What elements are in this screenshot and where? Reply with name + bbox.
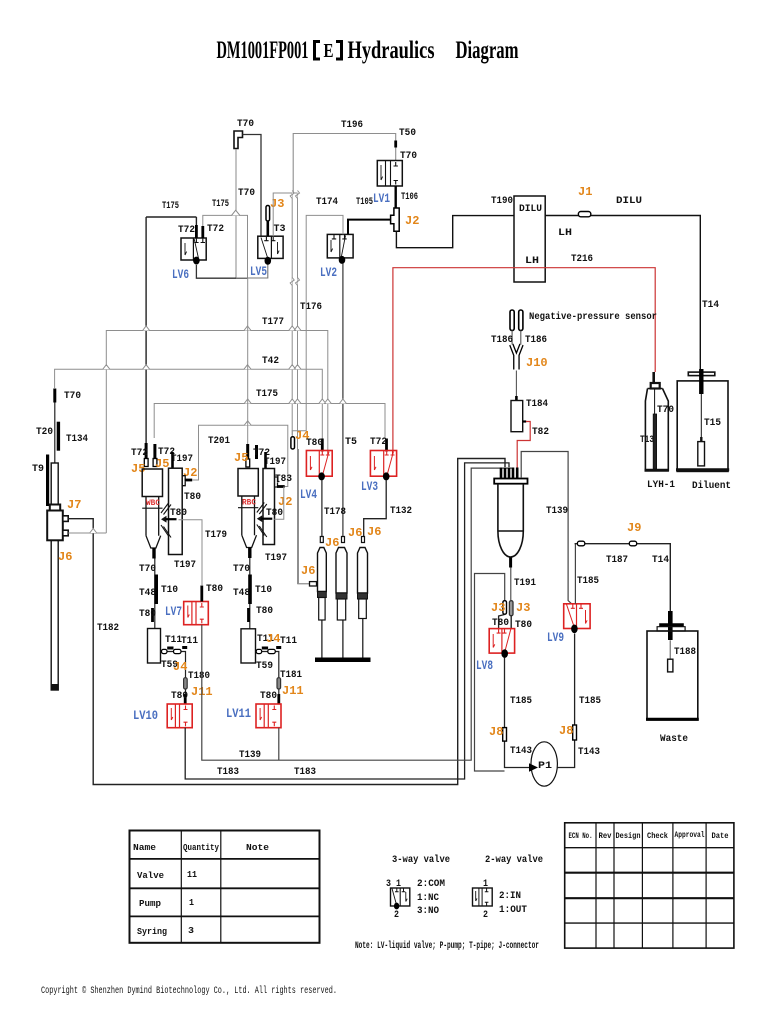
wire LV8 to P1 — [505, 658, 530, 768]
T106 wire LV1 to J2 — [395, 186, 397, 208]
svg-text:T20: T20 — [36, 427, 53, 438]
wire WBC stem down — [154, 559, 156, 629]
svg-text:DILU: DILU — [519, 204, 542, 215]
RBC mixer wire joins T201 riser — [274, 487, 284, 520]
svg-text:T175: T175 — [256, 389, 278, 400]
svg-text:1:OUT: 1:OUT — [499, 905, 527, 916]
svg-text:LV6: LV6 — [172, 267, 189, 282]
pump P1 — [531, 742, 557, 786]
svg-text:T197: T197 — [174, 560, 196, 571]
svg-text:J6: J6 — [58, 550, 72, 564]
T10 tick WBC — [154, 575, 158, 605]
RBC left port tick and capsule — [246, 444, 249, 459]
svg-text:T9: T9 — [32, 464, 44, 475]
T178 wire LV4 to syringe1 — [321, 480, 323, 537]
Y connector J10 — [511, 345, 521, 370]
svg-text:T70: T70 — [657, 405, 674, 416]
svg-text:T181: T181 — [280, 670, 302, 681]
WBC left port tick and J5 capsule — [145, 443, 148, 458]
svg-text:T175: T175 — [212, 199, 229, 210]
svg-text:T70: T70 — [64, 391, 81, 402]
svg-text:LV4: LV4 — [300, 487, 317, 502]
svg-text:T80: T80 — [260, 691, 277, 702]
svg-text:T72: T72 — [178, 225, 195, 236]
syringe 1 — [318, 537, 327, 658]
svg-text:P1: P1 — [538, 761, 552, 772]
svg-text:Hydraulics: Hydraulics — [348, 37, 435, 64]
svg-text:LV7: LV7 — [165, 604, 182, 619]
svg-text:T185: T185 — [579, 696, 601, 707]
RBC feed wire from LV5 bus — [247, 278, 249, 444]
hops on T177 — [143, 326, 301, 331]
RBC side box port tick — [264, 452, 267, 468]
T80 tick above LV11 — [277, 694, 280, 704]
svg-text:T80: T80 — [306, 438, 323, 449]
svg-text:RBC: RBC — [242, 499, 256, 508]
svg-text:T201: T201 — [208, 436, 230, 447]
waste body — [647, 631, 698, 720]
svg-text:Diluent: Diluent — [692, 480, 731, 492]
svg-text:T105: T105 — [356, 197, 373, 208]
svg-text:T50: T50 — [399, 128, 416, 139]
svg-text:T191: T191 — [514, 578, 536, 589]
svg-text:Quantity: Quantity — [183, 843, 219, 853]
valve LV8 (3-way red) — [489, 629, 514, 654]
svg-text:T183: T183 — [294, 767, 316, 778]
svg-text:J4: J4 — [266, 632, 280, 646]
wire capsule to LV8 — [510, 616, 512, 629]
svg-text:LV10: LV10 — [133, 708, 158, 723]
svg-text:T80: T80 — [184, 492, 201, 503]
T82 red wire — [523, 420, 527, 422]
svg-text:T174: T174 — [316, 197, 338, 208]
wire LV7 bottom to T139 bus — [202, 468, 513, 760]
valve LV10 (2-way red) — [167, 704, 192, 728]
svg-text:J2: J2 — [278, 495, 292, 509]
svg-text:T48: T48 — [139, 588, 156, 599]
syringe 3 — [358, 537, 368, 658]
svg-text:T13: T13 — [640, 435, 654, 446]
wire Y to T184 — [515, 371, 517, 397]
svg-text:J6: J6 — [325, 536, 339, 550]
svg-text:LV1: LV1 — [373, 191, 390, 206]
svg-text:T197: T197 — [265, 553, 287, 564]
valve LV11 (2-way red) — [256, 704, 281, 728]
svg-text:T10: T10 — [255, 585, 272, 596]
svg-text:LV5: LV5 — [250, 264, 267, 279]
wire LV11 joins T139 bus — [278, 728, 280, 761]
svg-text:J4: J4 — [173, 660, 187, 674]
svg-text:LV11: LV11 — [226, 706, 251, 721]
wire LV6 common to bus — [196, 265, 247, 278]
svg-text:T80: T80 — [139, 609, 156, 620]
elbow connector (T70 top) — [234, 119, 254, 149]
svg-text:LV8: LV8 — [476, 658, 493, 673]
svg-text:J3: J3 — [491, 601, 505, 615]
valve LV2 — [327, 234, 353, 264]
WBC right port tick and capsule — [153, 444, 156, 459]
J3 capsule left — [503, 601, 507, 615]
T134 tick — [57, 422, 60, 451]
RBC stem tick — [248, 548, 251, 559]
valve LV1 — [377, 161, 402, 187]
wire elbow to LV5 port1 — [243, 135, 262, 237]
svg-text:T182: T182 — [97, 623, 119, 634]
svg-text:T188: T188 — [674, 647, 696, 658]
svg-text:T175: T175 — [162, 201, 179, 212]
T80 tick above LV4 — [321, 439, 324, 452]
svg-text:Approval: Approval — [675, 831, 705, 840]
needle lower tab wire to T177 — [68, 532, 106, 534]
T105 wire LV2 to J2 — [348, 220, 391, 235]
svg-text:LH: LH — [525, 256, 539, 267]
svg-text:T134: T134 — [66, 434, 88, 445]
J1 connector — [578, 212, 590, 217]
wire T175 black from LV6 — [146, 217, 196, 443]
svg-text:J9: J9 — [627, 521, 641, 535]
J11 capsule WBC — [184, 678, 188, 689]
wire T175 grey to LV6 port2 — [203, 215, 248, 278]
svg-text:Negative-pressure sensor: Negative-pressure sensor — [529, 311, 657, 323]
svg-text:T106: T106 — [401, 192, 418, 203]
chamber body — [498, 484, 523, 557]
svg-text:T197: T197 — [264, 457, 286, 468]
svg-text:LV2: LV2 — [320, 265, 337, 280]
J8 capsule right — [573, 725, 577, 740]
needle upper tube — [54, 403, 56, 464]
svg-text:T177: T177 — [262, 317, 284, 328]
T3 wire into LV5 — [266, 221, 269, 236]
syringe base bar — [315, 658, 371, 663]
svg-text:2:IN: 2:IN — [499, 891, 521, 902]
T10 tick RBC — [248, 575, 252, 605]
wire T175 horizontal — [154, 404, 385, 439]
wire LV5 common to bus — [236, 263, 268, 278]
syringe 2 — [336, 537, 347, 658]
hops and tees on T175 — [244, 399, 346, 404]
T196 wire — [293, 134, 396, 194]
svg-text:Note: LV-liquid valve; P-pump;: Note: LV-liquid valve; P-pump; T-pipe; J… — [355, 940, 539, 952]
svg-text:2: 2 — [483, 910, 488, 921]
wire LV5 common up to elbow — [235, 149, 237, 278]
WBC chamber body — [142, 469, 162, 548]
svg-text:T183: T183 — [217, 767, 239, 778]
svg-text:T70: T70 — [238, 188, 255, 199]
svg-text:3: 3 — [188, 926, 194, 936]
svg-text:J3: J3 — [516, 601, 530, 615]
svg-text:T42: T42 — [262, 356, 279, 367]
svg-text:J11: J11 — [282, 684, 304, 698]
svg-text:T5: T5 — [345, 437, 357, 448]
svg-text:T70: T70 — [139, 564, 156, 575]
svg-text:T143: T143 — [510, 746, 532, 757]
svg-text:3-way valve: 3-way valve — [392, 854, 450, 866]
WBC stem tick — [152, 548, 155, 559]
svg-text:WBC: WBC — [146, 499, 160, 508]
svg-text:T197: T197 — [171, 454, 193, 465]
svg-text:J3: J3 — [270, 197, 284, 211]
valve LV3 (3-way red) — [370, 451, 396, 477]
svg-text:J8: J8 — [559, 724, 573, 738]
valve LV5 — [258, 236, 283, 265]
svg-text:T80: T80 — [170, 508, 187, 519]
svg-text:Waste: Waste — [660, 734, 688, 745]
svg-text:T132: T132 — [390, 506, 412, 517]
J4 capsule near T201 — [291, 437, 295, 449]
svg-text:T14: T14 — [652, 555, 669, 566]
T187 / J9 line — [575, 544, 671, 611]
svg-text:Pump: Pump — [139, 899, 161, 909]
WBC cup box — [148, 629, 161, 664]
svg-text:J2: J2 — [405, 214, 419, 228]
svg-text:LV3: LV3 — [361, 479, 378, 494]
svg-text:J8: J8 — [489, 725, 503, 739]
svg-text:2: 2 — [394, 910, 399, 921]
svg-text:2:COM: 2:COM — [417, 879, 445, 890]
J3 connector capsule — [266, 206, 270, 222]
svg-text:11: 11 — [187, 870, 198, 880]
T72 port ticks LV6 — [196, 225, 202, 238]
svg-text:ECN No.: ECN No. — [569, 832, 593, 841]
T201 connecting wire box — [192, 425, 288, 486]
svg-text:1:NC: 1:NC — [417, 893, 439, 904]
svg-text:T48: T48 — [233, 588, 250, 599]
T9 tube — [46, 455, 49, 507]
wire J2 bottom to T190 — [396, 216, 514, 248]
svg-text:LYH-1: LYH-1 — [647, 480, 675, 491]
svg-text:T70: T70 — [233, 564, 250, 575]
svg-text:T186: T186 — [491, 335, 513, 346]
svg-text:T80: T80 — [266, 508, 283, 519]
J8 capsule left — [503, 728, 507, 742]
J11 capsule RBC — [277, 678, 281, 689]
svg-text:T179: T179 — [205, 530, 227, 541]
svg-text:J10: J10 — [526, 356, 548, 370]
T139 wire chamber to LV9 — [521, 452, 571, 604]
LV8 left loop wire — [499, 615, 505, 630]
break squiggles on pair — [290, 191, 299, 199]
svg-text:Syring: Syring — [137, 927, 167, 937]
svg-text:J6: J6 — [348, 526, 362, 540]
wire LV9 to P1 — [557, 634, 574, 768]
svg-text:J1: J1 — [578, 185, 592, 199]
WBC J2 side port — [182, 476, 187, 486]
svg-text:T180: T180 — [188, 671, 210, 682]
waste inner tube T188 — [669, 640, 671, 659]
svg-text:E: E — [324, 40, 334, 62]
svg-text:T3: T3 — [274, 224, 286, 235]
sensor port capsules — [510, 310, 514, 331]
svg-text:T143: T143 — [578, 747, 600, 758]
svg-text:T59: T59 — [256, 661, 273, 672]
RBC J2 side port — [275, 477, 280, 487]
svg-text:T216: T216 — [571, 254, 593, 265]
svg-text:T185: T185 — [577, 576, 599, 587]
valve LV4 (3-way red) — [306, 451, 332, 477]
svg-text:Diagram: Diagram — [456, 37, 519, 64]
svg-text:Name: Name — [133, 843, 156, 853]
svg-text:T184: T184 — [526, 399, 548, 410]
RBC right port tick — [255, 445, 258, 459]
T5 wire LV2 common down — [342, 264, 344, 537]
title — [217, 37, 519, 64]
DILU heater box — [514, 196, 545, 282]
svg-text:T72: T72 — [131, 448, 148, 459]
svg-text:J5: J5 — [234, 451, 248, 465]
T80 tick above LV7 — [200, 586, 203, 602]
svg-text:T80: T80 — [206, 584, 223, 595]
svg-text:T15: T15 — [704, 418, 721, 429]
svg-text:Copyright © Shenzhen Dymind Bi: Copyright © Shenzhen Dymind Biotechnolog… — [41, 985, 337, 997]
svg-text:T187: T187 — [606, 555, 628, 566]
svg-text:2-way valve: 2-way valve — [485, 854, 543, 866]
svg-text:T70: T70 — [237, 119, 254, 130]
svg-text:Date: Date — [712, 832, 729, 841]
chamber lid pins — [501, 468, 517, 479]
T70 tick needle line — [53, 389, 56, 403]
svg-text:T72: T72 — [207, 224, 224, 235]
svg-text:J6: J6 — [301, 564, 315, 578]
svg-text:T178: T178 — [324, 507, 346, 518]
svg-text:T11: T11 — [165, 635, 182, 646]
svg-text:T139: T139 — [546, 506, 568, 517]
svg-text:LH: LH — [558, 228, 572, 239]
chamber outlet stem — [509, 558, 512, 568]
svg-text:T139: T139 — [239, 750, 261, 761]
needle body — [47, 463, 68, 690]
svg-text:T80: T80 — [171, 691, 188, 702]
svg-text:J6: J6 — [367, 525, 381, 539]
svg-text:T11: T11 — [181, 636, 198, 647]
svg-text:Valve: Valve — [137, 871, 164, 881]
chamber lid — [494, 479, 527, 484]
svg-text:T176: T176 — [300, 302, 322, 313]
WBC side box port tick — [171, 452, 174, 468]
svg-text:T190: T190 — [491, 196, 513, 207]
svg-text:T80: T80 — [515, 620, 532, 631]
hop on grey T175 wire — [232, 210, 240, 215]
T132 wire LV3 to syringe3 — [364, 480, 387, 537]
svg-text:DILU: DILU — [616, 196, 642, 207]
wire T42 horizontal — [55, 369, 323, 438]
T80 tick above LV10 — [184, 694, 187, 704]
svg-text:T80: T80 — [256, 606, 273, 617]
T80 tick WBC — [151, 608, 154, 622]
svg-text:T14: T14 — [702, 300, 719, 311]
valve LV7 (2-way red) — [184, 602, 209, 625]
svg-text:T82: T82 — [532, 427, 549, 438]
wire DILU to J1 to right column — [545, 216, 700, 370]
svg-text:J7: J7 — [67, 498, 81, 512]
hop RBC feed over T201 box — [244, 421, 251, 426]
svg-text:Note: Note — [246, 843, 269, 853]
valve LV6 — [181, 238, 206, 265]
grey pair verticals T176 — [291, 193, 293, 435]
RBC chamber body — [238, 469, 258, 548]
wire T177 horizontal — [106, 331, 327, 534]
svg-text:T80: T80 — [492, 618, 509, 629]
svg-text:1: 1 — [189, 898, 195, 908]
svg-text:T186: T186 — [525, 335, 547, 346]
J2 tee connector — [391, 208, 400, 231]
T179 wire WBC mixer to LV7 — [179, 520, 203, 585]
svg-text:LV9: LV9 — [547, 630, 564, 645]
svg-text:3:NO: 3:NO — [417, 906, 439, 917]
svg-text:T185: T185 — [510, 696, 532, 707]
svg-text:T11: T11 — [280, 636, 297, 647]
WBC mixer — [161, 503, 171, 538]
wire LV10 to T183 bus — [185, 463, 509, 779]
WBC side box (T197) — [169, 468, 183, 554]
T80 tick RBC — [247, 608, 250, 622]
RBC side box (T197) — [263, 469, 275, 545]
LV5 port2 stub to grey pair — [273, 193, 297, 236]
syringe1 side port J6 — [299, 449, 310, 584]
svg-text:DM1001FP001: DM1001FP001 — [217, 37, 309, 64]
T182 wire needle to bottom bus — [68, 459, 505, 785]
T184 damper box — [511, 401, 523, 432]
T72 tick above LV3 — [385, 439, 388, 452]
sensor wires to Y — [512, 331, 521, 345]
waste cap cross — [668, 611, 673, 640]
svg-text:T10: T10 — [161, 585, 178, 596]
T174 wire — [292, 215, 343, 437]
J3 capsule right (grey) — [509, 601, 513, 616]
J4 bus from WBC cup — [161, 652, 186, 696]
T50 tick — [394, 141, 397, 148]
RBC mixer — [257, 503, 267, 538]
hops on T42 — [103, 365, 301, 370]
RBC cup box — [241, 629, 256, 663]
svg-text:Check: Check — [647, 832, 668, 841]
T185 wire LV9 to T187 line — [574, 544, 576, 604]
svg-text:T72: T72 — [370, 437, 387, 448]
svg-text:Rev: Rev — [599, 832, 612, 841]
svg-text:T196: T196 — [341, 120, 363, 131]
red LH/T216 wire — [393, 268, 655, 451]
J4 bus from RBC cup — [256, 652, 279, 696]
svg-text:Design: Design — [616, 832, 641, 841]
